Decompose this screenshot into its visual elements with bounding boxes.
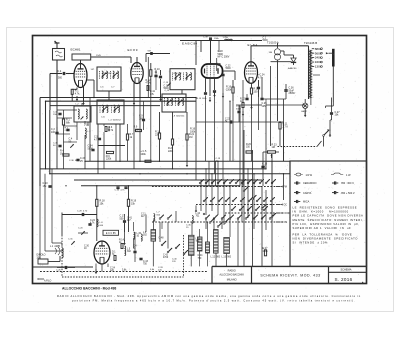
svg-text:SCHEMA: SCHEMA xyxy=(340,268,351,272)
svg-text:C.41: C.41 xyxy=(127,218,133,220)
svg-text:T2/1146 B: T2/1146 B xyxy=(304,41,317,45)
svg-text:CARTA: CARTA xyxy=(303,192,312,195)
svg-text:MICA: MICA xyxy=(303,201,310,204)
svg-text:INT.: INT. xyxy=(327,129,331,131)
svg-text:R.12: R.12 xyxy=(146,80,152,82)
svg-text:1M: 1M xyxy=(272,146,275,149)
svg-text:1545: 1545 xyxy=(96,55,102,57)
svg-text:SI INTENDE ± 20%: SI INTENDE ± 20% xyxy=(293,240,328,244)
svg-text:MENTE SPECIFICATO: NUMERI INT: MENTE SPECIFICATO: NUMERI INTERI, xyxy=(293,218,364,222)
svg-text:OC: OC xyxy=(284,205,288,207)
svg-text:3-30: 3-30 xyxy=(84,125,89,127)
svg-text:PER LA TOLLERANZA % DOVE: PER LA TOLLERANZA % DOVE xyxy=(293,233,353,237)
svg-text:C.15: C.15 xyxy=(164,82,169,84)
svg-text:E C C 85: E C C 85 xyxy=(106,232,116,235)
svg-text:C.22: C.22 xyxy=(225,119,231,121)
svg-text:IN OHM. K=1000 M=1000000: IN OHM. K=1000 M=1000000 xyxy=(293,209,349,213)
svg-text:ALLOCCHIO BACCHINI - Mod 498: ALLOCCHIO BACCHINI - Mod 498 xyxy=(62,286,116,290)
svg-text:250W: 250W xyxy=(289,92,296,95)
svg-text:ALLOCCHIO BACCHINI: ALLOCCHIO BACCHINI xyxy=(220,274,245,277)
svg-text:FONO: FONO xyxy=(284,213,291,215)
svg-text:100: 100 xyxy=(139,117,144,120)
svg-text:L.30: L.30 xyxy=(137,233,142,235)
svg-text:PIU 100, ESPRIMONO VALORI IN: PIU 100, ESPRIMONO VALORI IN pF, xyxy=(293,222,360,226)
svg-text:SUPERIORI AD 1 VALORI IN uF: SUPERIORI AD 1 VALORI IN uF xyxy=(293,226,352,230)
svg-text:100k: 100k xyxy=(263,250,269,253)
svg-text:5000: 5000 xyxy=(263,40,269,42)
svg-text:E F 8 9: E F 8 9 xyxy=(128,48,138,52)
svg-text:NON DIVERSAMENTE SPECIFICATO: NON DIVERSAMENTE SPECIFICATO xyxy=(293,236,358,240)
svg-text:100k: 100k xyxy=(141,153,147,156)
svg-text:470k: 470k xyxy=(146,83,152,85)
svg-text:C.31: C.31 xyxy=(68,239,73,241)
svg-text:C.12: C.12 xyxy=(164,86,170,88)
svg-text:C.28 4.7k: C.28 4.7k xyxy=(77,210,88,212)
svg-text:4.7k: 4.7k xyxy=(75,92,80,95)
svg-text:C.39: C.39 xyxy=(203,37,208,39)
svg-text:600/152: 600/152 xyxy=(104,73,113,75)
svg-text:C.35 4.7k: C.35 4.7k xyxy=(115,190,126,192)
svg-text:SCHEMA RICEVIT. MOD. 433: SCHEMA RICEVIT. MOD. 433 xyxy=(260,274,320,278)
svg-text:C.42: C.42 xyxy=(163,254,169,256)
svg-text:350 + 500 V.: 350 + 500 V. xyxy=(341,192,355,195)
svg-text:CERAMICO: CERAMICO xyxy=(303,182,317,185)
svg-text:100: 100 xyxy=(51,131,56,134)
svg-text:RADIO: RADIO xyxy=(228,269,236,273)
svg-text:220k: 220k xyxy=(106,158,112,161)
svg-text:E L 8 4: E L 8 4 xyxy=(248,43,258,47)
svg-text:220k: 220k xyxy=(226,88,232,91)
svg-text:R.14: R.14 xyxy=(119,240,125,242)
svg-text:LE RESISTENZE SONO ESPRESSE: LE RESISTENZE SONO ESPRESSE xyxy=(293,205,358,209)
svg-text:PER LE CAPACITA DOVE NON DIVE: PER LE CAPACITA DOVE NON DIVERSA xyxy=(293,214,364,218)
svg-text:100: 100 xyxy=(254,90,259,93)
svg-text:L.4 600/152: L.4 600/152 xyxy=(109,120,122,122)
svg-text:L.10: L.10 xyxy=(196,213,201,215)
svg-text:R.20: R.20 xyxy=(246,144,252,146)
svg-text:C.48: C.48 xyxy=(159,238,165,240)
svg-text:4700: 4700 xyxy=(163,257,169,259)
svg-text:posizione FM. Media frequenza: posizione FM. Media frequenza a 465 kc/s… xyxy=(72,298,356,302)
svg-text:OM: OM xyxy=(284,222,288,224)
svg-text:600/152: 600/152 xyxy=(174,73,183,75)
svg-text:C.20: C.20 xyxy=(78,228,83,230)
svg-text:1M: 1M xyxy=(60,152,63,155)
svg-text:C.16: C.16 xyxy=(166,105,171,107)
svg-text:5000: 5000 xyxy=(88,147,94,150)
svg-text:C.22: C.22 xyxy=(90,220,96,222)
svg-text:EABC80: EABC80 xyxy=(288,67,297,70)
svg-text:RADIO ALLOCCHIO BACCHINI - Mod: RADIO ALLOCCHIO BACCHINI - Mod. 498. App… xyxy=(57,294,361,298)
svg-text:C.44: C.44 xyxy=(198,255,204,257)
svg-text:C.24: C.24 xyxy=(110,268,116,270)
svg-text:S. 2016: S. 2016 xyxy=(335,277,353,282)
svg-text:FM: FM xyxy=(284,187,287,189)
svg-text:1.25k: 1.25k xyxy=(223,37,229,39)
svg-text:100k: 100k xyxy=(190,130,196,133)
svg-text:1/2 W: 1/2 W xyxy=(306,174,313,177)
svg-text:C.43: C.43 xyxy=(143,261,149,263)
svg-text:4.7k: 4.7k xyxy=(258,76,263,79)
svg-text:125: 125 xyxy=(262,105,267,108)
svg-text:LAMP.: LAMP. xyxy=(301,110,308,113)
svg-text:1 W: 1 W xyxy=(346,174,351,177)
svg-text:500: 500 xyxy=(58,76,63,79)
svg-text:5000: 5000 xyxy=(164,88,170,90)
svg-text:C.30: C.30 xyxy=(84,246,90,248)
svg-text:L.9 600/152: L.9 600/152 xyxy=(172,116,185,118)
svg-text:220k: 220k xyxy=(168,150,174,153)
svg-text:350 : 300 V.: 350 : 300 V. xyxy=(341,182,355,185)
svg-text:4.7k: 4.7k xyxy=(94,138,99,141)
svg-text:1M: 1M xyxy=(189,136,192,139)
svg-text:C.22: C.22 xyxy=(226,66,232,68)
svg-text:ECH81: ECH81 xyxy=(71,47,81,51)
svg-text:NF C 200V: NF C 200V xyxy=(218,56,230,59)
svg-text:C.15: C.15 xyxy=(165,90,170,92)
svg-text:A.FILO: A.FILO xyxy=(44,279,51,282)
svg-text:MILANO: MILANO xyxy=(227,278,237,282)
svg-text:5000: 5000 xyxy=(226,68,232,70)
svg-text:500: 500 xyxy=(120,217,125,220)
svg-text:C.11: C.11 xyxy=(141,214,146,216)
